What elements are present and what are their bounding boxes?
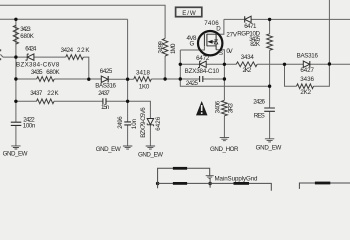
svg-text:2K2: 2K2 — [300, 89, 311, 96]
svg-text:6427: 6427 — [300, 67, 314, 74]
svg-text:GND_EW: GND_EW — [96, 146, 121, 153]
svg-text:3436: 3436 — [300, 76, 314, 83]
svg-text:22K: 22K — [47, 90, 59, 97]
svg-text:MainSupplyGnd: MainSupplyGnd — [215, 175, 259, 182]
svg-text:1M0: 1M0 — [170, 43, 177, 54]
svg-text:2496: 2496 — [117, 116, 124, 129]
svg-text:3418: 3418 — [136, 69, 151, 76]
svg-text:BZX384-C6V8: BZX384-C6V8 — [16, 62, 60, 69]
svg-text:D: D — [216, 25, 221, 32]
svg-text:6425: 6425 — [100, 68, 113, 75]
svg-text:E/W: E/W — [182, 10, 196, 17]
svg-text:3437: 3437 — [30, 90, 43, 97]
svg-text:3499: 3499 — [158, 41, 165, 54]
svg-text:3R3: 3R3 — [227, 103, 234, 114]
svg-text:680K: 680K — [46, 69, 60, 76]
svg-text:6472: 6472 — [196, 55, 210, 62]
svg-text:3434: 3434 — [241, 54, 255, 61]
svg-text:BZX384-C10: BZX384-C10 — [185, 68, 220, 75]
svg-text:22K: 22K — [77, 47, 90, 54]
svg-text:3435: 3435 — [31, 69, 43, 76]
svg-text:BZX79-C5V6: BZX79-C5V6 — [140, 107, 147, 138]
svg-text:S: S — [219, 50, 223, 57]
svg-text:3423: 3423 — [20, 26, 31, 33]
svg-text:GND_EW: GND_EW — [3, 150, 28, 157]
svg-text:6471: 6471 — [244, 23, 257, 30]
svg-text:27V: 27V — [226, 32, 237, 39]
svg-text:6426: 6426 — [155, 116, 162, 131]
svg-text:3406: 3406 — [214, 100, 221, 113]
svg-text:G: G — [190, 40, 195, 47]
svg-text:2425: 2425 — [186, 80, 199, 87]
svg-text:2K2: 2K2 — [243, 67, 252, 74]
svg-text:2437: 2437 — [98, 90, 110, 97]
svg-text:100n: 100n — [23, 123, 36, 130]
svg-text:0V: 0V — [226, 48, 233, 55]
svg-text:680K: 680K — [20, 33, 34, 40]
svg-text:6424: 6424 — [25, 45, 37, 52]
svg-text:15n: 15n — [101, 104, 110, 111]
svg-text:2426: 2426 — [253, 99, 265, 106]
svg-text:GND_EW: GND_EW — [256, 144, 282, 151]
svg-text:GND_EW: GND_EW — [138, 152, 163, 159]
svg-text:GND_HOR: GND_HOR — [210, 146, 239, 153]
svg-text:BAS316: BAS316 — [95, 82, 116, 89]
svg-text:82K: 82K — [250, 41, 261, 48]
svg-text:10n: 10n — [131, 118, 138, 129]
svg-text:RES: RES — [254, 113, 265, 120]
svg-text:1K0: 1K0 — [139, 84, 150, 91]
svg-text:3424: 3424 — [61, 47, 74, 54]
svg-text:BAS316: BAS316 — [297, 52, 319, 59]
